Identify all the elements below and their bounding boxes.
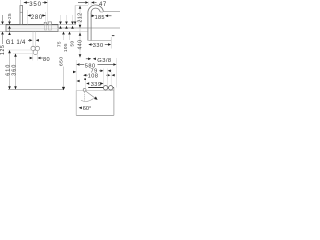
wire rim line right xyxy=(58,27,120,29)
dim 25 arrow pair at body top xyxy=(9,20,11,22)
node tub square xyxy=(88,87,114,89)
node trap circles xyxy=(33,50,38,55)
svg-text:108: 108 xyxy=(88,74,99,80)
dim 280 xyxy=(28,15,32,17)
mid arrow cluster at bar end xyxy=(60,15,62,21)
svg-text:330: 330 xyxy=(93,43,104,49)
wire deck line left (basin top reference) xyxy=(0,24,76,26)
node basin body (side view bar) xyxy=(6,25,58,32)
dim 650 line xyxy=(63,67,65,88)
dim G3/8 xyxy=(86,58,88,60)
extra arrow at left ext xyxy=(73,71,76,74)
spout arch inner xyxy=(91,8,100,13)
dim 440 xyxy=(79,33,82,36)
svg-text:80: 80 xyxy=(43,57,50,63)
dim 580 xyxy=(76,63,79,66)
technical installation drawing (bath mixer with arch spout, side view + top view) xyxy=(0,0,120,120)
dim 339 xyxy=(86,82,89,85)
wire swivel arc xyxy=(81,99,94,102)
wire trap pipes xyxy=(32,32,34,47)
wire floor line xyxy=(8,89,64,91)
dim 330 xyxy=(88,40,111,42)
wire ext right of arch xyxy=(103,11,120,13)
svg-text:G1 1/4: G1 1/4 xyxy=(6,40,26,46)
dim 350 xyxy=(24,2,29,4)
dim 360 xyxy=(15,54,17,90)
svg-text:G3/8: G3/8 xyxy=(97,58,111,64)
dim 25 extension line left xyxy=(2,15,4,21)
dim arrows at body bottom xyxy=(1,32,4,35)
svg-text:125: 125 xyxy=(0,45,6,55)
label 60deg xyxy=(79,107,82,110)
spout right leg xyxy=(100,11,103,13)
spout arch outer xyxy=(88,5,104,13)
wire hole ext lines xyxy=(103,69,105,87)
svg-text:440: 440 xyxy=(78,39,84,49)
svg-text:280: 280 xyxy=(31,15,43,21)
svg-text:50: 50 xyxy=(70,40,75,46)
svg-text:185: 185 xyxy=(95,15,105,21)
node cartridge internals xyxy=(7,27,58,29)
svg-text:60°: 60° xyxy=(83,106,91,112)
node supply holes xyxy=(103,86,107,90)
node handle stick xyxy=(20,6,23,25)
wire ext lines for 610/360 xyxy=(8,49,32,51)
dim 212 line xyxy=(74,6,76,22)
dim 185 xyxy=(92,15,95,18)
wire swivel axis dashed xyxy=(84,92,86,102)
node swivel hole xyxy=(83,88,86,91)
svg-text:350: 350 xyxy=(29,2,42,8)
svg-text:360: 360 xyxy=(11,64,17,76)
svg-text:212: 212 xyxy=(78,12,84,22)
spout left leg xyxy=(87,13,89,41)
svg-text:25: 25 xyxy=(7,13,12,19)
wire swivel diagonal xyxy=(85,91,96,99)
svg-text:105: 105 xyxy=(63,43,68,52)
dim 47 xyxy=(78,2,85,4)
dim 610 xyxy=(9,50,11,90)
svg-text:47: 47 xyxy=(99,2,107,8)
dim 80 xyxy=(32,50,34,60)
svg-text:75: 75 xyxy=(56,41,61,47)
wire deck line bottom ext xyxy=(0,31,6,33)
dim 108 xyxy=(83,74,86,77)
svg-text:650: 650 xyxy=(59,56,65,66)
wire ext left edge up xyxy=(75,60,77,91)
dim arrows at waste pipe xyxy=(29,39,32,42)
